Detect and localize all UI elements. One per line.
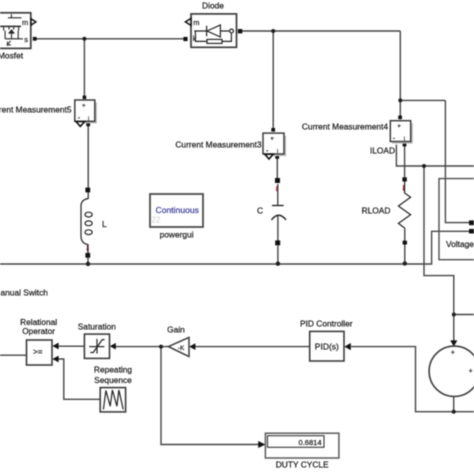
svg-text:Saturation: Saturation [78,321,117,331]
svg-text:+: + [469,368,473,375]
svg-text:RLOAD: RLOAD [362,206,391,216]
svg-text:22: 22 [152,216,161,225]
svg-text:i: i [277,149,278,155]
svg-text:PID Controller: PID Controller [300,318,353,328]
svg-text:>=: >= [33,347,43,356]
svg-text:+: + [82,103,86,110]
svg-text:Current Measurement5: Current Measurement5 [0,105,72,115]
svg-text:L: L [102,219,107,229]
svg-text:C: C [257,205,263,215]
svg-text:DUTY CYCLE: DUTY CYCLE [276,460,329,470]
svg-text:Repeating: Repeating [94,365,133,375]
svg-text:Operator: Operator [22,326,55,336]
svg-text:i: i [88,116,89,122]
svg-text:+: + [451,350,455,357]
svg-text:Mosfet: Mosfet [0,50,24,60]
svg-text:m: m [22,18,28,27]
svg-text:s: s [24,35,28,44]
svg-text:ILOAD: ILOAD [370,146,395,156]
svg-text:-K: -K [178,345,185,352]
svg-text:Manual Switch: Manual Switch [0,287,48,297]
svg-text:0.6814: 0.6814 [299,438,322,447]
svg-text:Current Measurement4: Current Measurement4 [302,122,388,132]
svg-text:PID(s): PID(s) [315,341,339,351]
svg-text:Diode: Diode [202,1,224,11]
svg-text:Current Measurement3: Current Measurement3 [175,139,261,149]
svg-text:i: i [404,137,405,143]
svg-text:+: + [397,123,401,130]
svg-text:m: m [193,18,199,27]
svg-text:Voltage: Voltage [446,239,474,249]
svg-text:+: + [270,136,274,143]
svg-text:powergui: powergui [160,229,194,239]
svg-text:Sequence: Sequence [94,375,132,385]
svg-text:Gain: Gain [167,324,185,334]
svg-text:Continuous: Continuous [156,205,199,215]
